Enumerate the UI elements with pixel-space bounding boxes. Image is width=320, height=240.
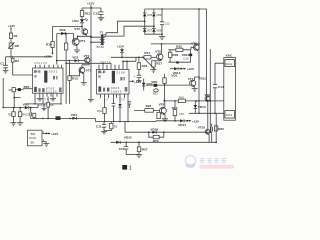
svg-text:1: 1 [129, 166, 132, 172]
svg-text:C13: C13 [93, 11, 99, 15]
diode VD4a right of IC2 [142, 79, 153, 91]
capacitor C16 [119, 142, 129, 154]
capacitor C11 [96, 122, 106, 131]
svg-text:VD9: VD9 [59, 28, 65, 32]
wire VT5 base rail [111, 57, 144, 59]
transistor VT9 [204, 93, 210, 101]
capacitor C9 below IC2 [112, 104, 116, 122]
diode VD16 [150, 127, 158, 133]
wire IC2 top bus [65, 63, 111, 64]
node +12V feed VT5 rail [117, 45, 125, 49]
svg-text:C10: C10 [183, 56, 188, 60]
svg-text:R11: R11 [85, 12, 91, 16]
transistor VT10 [198, 101, 210, 142]
capacitor C15 [179, 112, 184, 116]
resistor R41 below IC2 [97, 108, 106, 122]
capacitor C17 [211, 124, 213, 143]
wire VD3 row [2, 104, 38, 108]
wire +12V bottom rail [156, 120, 180, 122]
svg-text:1 0 8 3 5: 1 0 8 3 5 [111, 89, 122, 93]
wire left edge vertical [2, 78, 4, 108]
capacitor C2 [33, 113, 36, 118]
wire VT3 base riser [70, 70, 81, 76]
diode VD11 [198, 77, 206, 81]
IC1 bottom pins [35, 93, 61, 104]
diode VD2 [15, 88, 23, 91]
wire R2 down to IC1 [13, 57, 33, 75]
wire bridge top rail [145, 8, 207, 10]
node +12V bottom arrow [184, 119, 200, 123]
resistor R30 [214, 126, 224, 131]
resistor R17 [152, 61, 163, 67]
resistor R27 [137, 142, 147, 154]
svg-text:LED: LED [72, 19, 79, 23]
resistor R8 below IC1 [47, 97, 54, 120]
resistor R26 [157, 112, 160, 118]
resistor R18 [168, 50, 178, 62]
ground below C11 [101, 131, 107, 135]
wire LED to VT2 [81, 23, 83, 29]
svg-text:5 0: 5 0 [121, 97, 125, 101]
svg-text:C14: C14 [218, 85, 224, 89]
svg-text:VD2: VD2 [72, 55, 78, 59]
capacitor C11a [168, 56, 190, 63]
svg-text:3 1 0 8: 3 1 0 8 [116, 70, 125, 74]
node +12V left input [8, 24, 16, 29]
ground DC box [43, 144, 49, 147]
wire VD9 riser [52, 27, 54, 42]
svg-text:VT2: VT2 [74, 27, 80, 31]
node VD1 label [171, 73, 177, 77]
potentiometer RP [8, 43, 19, 49]
capacitor C3 [26, 107, 32, 119]
ground below R6 [17, 123, 23, 126]
ground below R5 [11, 123, 17, 126]
svg-text:VD5: VD5 [147, 13, 153, 17]
wire VT1 emitter to ground [76, 46, 78, 49]
op-amp IC1 [33, 68, 64, 94]
svg-text:C1: C1 [0, 61, 4, 65]
svg-text:+12V: +12V [8, 24, 16, 28]
svg-text:XA13: XA13 [226, 113, 233, 117]
transistor VT5 [155, 50, 163, 62]
node +12V DC box [46, 132, 60, 136]
wire long rail left bottom [31, 118, 96, 119]
resistor R15 [168, 44, 195, 51]
wire VT6 top rail [151, 43, 200, 45]
svg-text:XAC: XAC [226, 54, 233, 58]
diode VD17 on rail [71, 113, 77, 120]
svg-text:R18: R18 [172, 53, 178, 57]
svg-text:VT5: VT5 [155, 50, 161, 54]
wire VT3 emitter ground [81, 73, 87, 85]
wire VT1 collector [77, 36, 79, 39]
capacitor C7 below IC2 right [128, 102, 131, 108]
wire VT8 emitter ground [162, 114, 168, 121]
svg-text:R16: R16 [142, 64, 148, 68]
capacitor C6 oval [153, 89, 159, 96]
transistor VT6 [191, 41, 199, 51]
svg-text:1 4: 1 4 [104, 97, 108, 101]
resistor R2 [11, 58, 19, 63]
svg-text:R13: R13 [72, 77, 78, 81]
svg-text:C16: C16 [119, 147, 125, 151]
svg-text:+12V: +12V [192, 119, 200, 123]
wire bridge bottom rail [145, 33, 163, 35]
transformer T1 [97, 31, 105, 49]
resistor R14 [144, 51, 157, 59]
svg-text:VD14: VD14 [178, 123, 186, 127]
wire bridge columns [144, 9, 155, 34]
ground below VT7 [192, 87, 198, 92]
resistor R5 [8, 108, 15, 123]
ground IC1 pin2 [37, 98, 43, 101]
svg-text:4 6 9 3 2 8: 4 6 9 3 2 8 [34, 61, 47, 65]
wire lower rail to connector [163, 100, 224, 102]
diode VD12 [173, 67, 181, 75]
resistor R13 mid [163, 74, 166, 101]
svg-text:C4: C4 [39, 103, 43, 107]
ground IC1 pin5 [50, 98, 56, 101]
resistor R19 [178, 96, 185, 103]
svg-text:R41: R41 [97, 109, 102, 113]
wire rail mid link [96, 119, 157, 123]
ground below VT1 [74, 50, 80, 53]
transistor VT8 [159, 103, 167, 116]
svg-text:C15: C15 [179, 112, 184, 116]
svg-text:+12V: +12V [187, 67, 195, 71]
wire VT5 collector up [161, 44, 163, 54]
wire R12 column [65, 34, 67, 104]
svg-text:VD8: VD8 [156, 28, 162, 32]
wire rail A stub [124, 121, 125, 132]
diode VD7 [143, 28, 153, 32]
resistor R23 [134, 104, 160, 112]
svg-text:R2: R2 [15, 59, 19, 63]
svg-text:B1 B2: B1 B2 [97, 45, 105, 49]
connector XAC [224, 54, 236, 121]
resistor R24 loop [149, 132, 164, 143]
IC1 top pins [34, 61, 62, 68]
wire IC1 bottom bus [26, 103, 62, 104]
wire R11 to LED [81, 17, 83, 20]
wire bottom rail A [125, 131, 205, 133]
svg-text:R30: R30 [218, 127, 224, 131]
wire VT8 collector [164, 101, 166, 107]
diode VD15 [116, 136, 132, 144]
wire VT2 emitter to rail [78, 35, 92, 38]
resistor R16 [137, 57, 147, 75]
diode VD9 [59, 28, 65, 35]
svg-text:VD6: VD6 [151, 80, 157, 84]
wire bottom rail B [111, 142, 217, 144]
transistor VT2 [74, 27, 88, 36]
diode VD10 [182, 50, 193, 62]
wire VD9 row [57, 33, 74, 35]
svg-text:VD1: VD1 [171, 73, 177, 77]
node RP1 into IC1 [23, 85, 33, 89]
svg-text:R15: R15 [176, 44, 182, 48]
wire RP to bus [10, 49, 12, 58]
capacitor C10 [134, 75, 142, 82]
diode VD2b [72, 55, 84, 62]
resistor R4 left [9, 88, 16, 92]
svg-text:R21: R21 [153, 92, 158, 96]
wire right vertical C14 [214, 63, 224, 114]
resistor R13 right of IC1 [68, 61, 78, 104]
fuse block on rail [56, 116, 61, 120]
diode VD6 [152, 13, 162, 17]
svg-text:VD16: VD16 [150, 127, 158, 131]
wire +12V long vertical rail [90, 8, 92, 99]
wire VD2 column [13, 92, 20, 108]
svg-text:T1: T1 [100, 31, 104, 35]
transistor VT7 [188, 77, 196, 88]
diode VD6b [151, 80, 157, 87]
wire VD9 column down [56, 34, 58, 65]
svg-text:VD3: VD3 [23, 102, 29, 106]
wire T1 secondary to bridge [104, 21, 154, 36]
svg-text:VT3: VT3 [86, 69, 92, 73]
svg-text:C11: C11 [96, 125, 102, 129]
svg-text:R14: R14 [144, 51, 150, 55]
svg-text:R1: R1 [14, 34, 18, 38]
resistor R10 [46, 42, 54, 48]
svg-text:VT1: VT1 [80, 39, 86, 43]
svg-text:R8: R8 [50, 103, 54, 107]
ground below C1 [3, 71, 9, 74]
caption figure 1 [122, 165, 132, 172]
resistor R11 [80, 11, 90, 17]
diode VD5 [143, 13, 153, 17]
capacitor C14 [213, 85, 224, 89]
resistor R22 [104, 122, 118, 131]
svg-text:VT10: VT10 [198, 125, 206, 129]
wire left column [10, 29, 12, 34]
wire from +12V node down [82, 5, 101, 11]
resistor R12 [64, 43, 67, 50]
node +12V supply top [87, 2, 95, 6]
svg-text:C12: C12 [165, 22, 170, 26]
IC2 top pins [99, 60, 127, 70]
resistor R1 [9, 33, 17, 39]
wire +12V arrow mid [170, 68, 174, 70]
wire top link [53, 26, 83, 28]
svg-text:XAC2: XAC2 [225, 62, 233, 66]
svg-text:+12V: +12V [44, 54, 52, 58]
wire T1 primary left [90, 36, 100, 43]
transistor VT3 [79, 67, 92, 74]
svg-text:VD7: VD7 [147, 28, 153, 32]
wire right vertical 216 [215, 113, 217, 143]
wire diagonal [143, 57, 155, 69]
wire right vertical 206 [206, 9, 208, 101]
capacitor C13 [93, 8, 103, 18]
transistor VT4 [84, 54, 90, 64]
wire right vertical 199 [198, 9, 200, 114]
wire IC2 pins to VT5 rail [122, 57, 136, 62]
resistor R25 [172, 101, 178, 121]
svg-text:+12V: +12V [51, 132, 59, 136]
transistor VT1 [72, 38, 85, 46]
node +12V mid arrow [178, 67, 195, 71]
wire right vertical 210 [205, 49, 211, 133]
IC2 bottom pins [101, 94, 129, 122]
wire VT4 to VT3 [82, 63, 89, 67]
svg-text:VT8: VT8 [159, 103, 165, 107]
diode VD3 [23, 102, 29, 109]
svg-text:C3: C3 [26, 113, 30, 117]
LED [72, 18, 87, 23]
svg-text:B0-: B0- [31, 140, 35, 144]
diode VD8 [152, 28, 162, 32]
wire left bus row [6, 56, 53, 58]
wire VT4 base row [56, 60, 74, 62]
svg-text:B04: B04 [31, 132, 36, 136]
wire VT7 base row [146, 84, 190, 86]
diode VD13 [194, 101, 206, 113]
svg-text:VD4: VD4 [71, 113, 77, 117]
svg-text:5 0 3 1: 5 0 3 1 [49, 70, 58, 74]
ground below C13 [98, 18, 104, 21]
svg-text:R17: R17 [156, 62, 162, 66]
diode VD14 [178, 119, 186, 127]
node +12V right of IC2 [129, 80, 142, 84]
diode VD below IC2 [118, 104, 121, 122]
svg-text:0 1 2 9 0: 0 1 2 9 0 [46, 90, 57, 94]
svg-text:RP: RP [15, 44, 19, 48]
node +12V to IC1 pin [44, 48, 54, 59]
watermark logo [185, 156, 195, 168]
wire VT5 emitter to R17 [154, 60, 161, 62]
wire R1 to RP [10, 39, 12, 44]
svg-text:R2: R2 [114, 124, 118, 128]
watermark bar [199, 165, 234, 169]
ground below bridge [159, 34, 165, 39]
capacitor C1 [0, 57, 8, 71]
svg-text:9 8 2 6: 9 8 2 6 [111, 86, 120, 90]
wire rail into connector [189, 112, 224, 114]
capacitor C12 [160, 9, 170, 34]
diode VD4 [120, 49, 124, 57]
svg-text:DC10: DC10 [29, 136, 36, 140]
watermark characters [200, 159, 227, 163]
op-amp IC2 [97, 70, 130, 95]
svg-text:+12V: +12V [117, 45, 125, 49]
svg-text:VD15: VD15 [124, 136, 132, 140]
wire IC2 left ground rail [88, 99, 94, 102]
ground below R17 [150, 67, 156, 72]
svg-text:VD6: VD6 [156, 13, 162, 17]
box DC power module [28, 130, 47, 146]
svg-text:R23: R23 [146, 104, 152, 108]
wire VT7 collector [195, 76, 200, 80]
capacitor C4 below IC1 [39, 97, 47, 111]
resistor R6 [18, 107, 26, 123]
svg-text:R10: R10 [46, 42, 52, 46]
wire VT1 base [73, 34, 76, 42]
svg-text:R27: R27 [142, 148, 148, 152]
ground bottom [126, 155, 142, 158]
